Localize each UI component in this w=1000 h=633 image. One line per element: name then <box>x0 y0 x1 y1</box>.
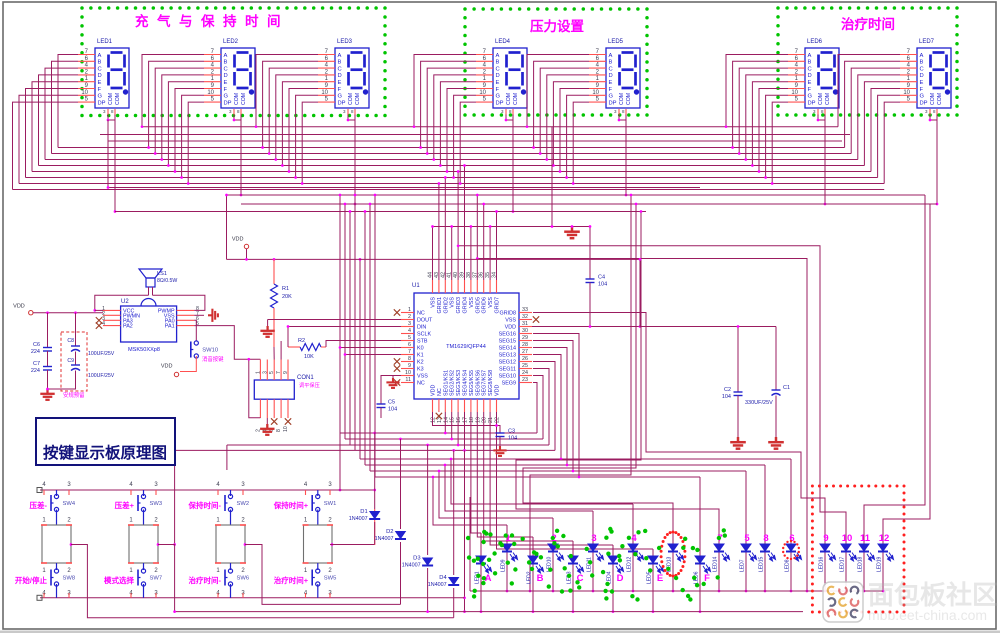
svg-text:LS1: LS1 <box>157 271 167 277</box>
LED LED7 <box>741 544 751 552</box>
svg-text:SEG6/KS6: SEG6/KS6 <box>475 370 481 396</box>
svg-text:1: 1 <box>408 307 411 313</box>
svg-text:3: 3 <box>591 533 596 544</box>
svg-text:C2: C2 <box>724 387 731 393</box>
svg-text:保持时间+: 保持时间+ <box>273 500 309 510</box>
svg-text:2: 2 <box>408 314 411 320</box>
svg-text:SEG11: SEG11 <box>499 367 516 373</box>
svg-text:LED6: LED6 <box>807 39 823 45</box>
wire: display COM connections <box>108 115 115 121</box>
svg-text:VSS: VSS <box>469 297 475 308</box>
wire: display fan at x=221 <box>142 55 204 127</box>
svg-text:29: 29 <box>522 335 528 341</box>
svg-text:DP: DP <box>338 100 346 106</box>
svg-text:224: 224 <box>31 368 40 374</box>
capacitor C6 <box>47 313 49 348</box>
svg-text:23: 23 <box>522 377 528 383</box>
svg-text:C8: C8 <box>67 338 74 344</box>
svg-text:20: 20 <box>482 417 488 423</box>
buzzer LS1 <box>139 269 162 287</box>
ground near C4 <box>564 227 580 239</box>
wire: DIN to R2 <box>288 327 401 348</box>
svg-text:DP: DP <box>609 100 617 106</box>
svg-text:SEG1/KS1: SEG1/KS1 <box>443 370 449 396</box>
switch SW10 <box>191 341 199 358</box>
svg-text:LED16: LED16 <box>819 556 825 572</box>
wire: DOUT line <box>268 319 401 321</box>
wire: display fan at x=335 <box>256 55 318 127</box>
wire: COM bus lines <box>115 211 646 213</box>
svg-text:模式选择: 模式选择 <box>104 575 134 585</box>
svg-text:COM: COM <box>825 93 831 105</box>
svg-text:COM: COM <box>930 93 936 105</box>
svg-text:SW4: SW4 <box>63 501 76 507</box>
capacitor C5 <box>377 404 386 408</box>
svg-text:3: 3 <box>262 371 268 374</box>
svg-text:SEG5/KS5: SEG5/KS5 <box>469 370 475 396</box>
wire: PA0 to SW10 <box>194 320 196 340</box>
wire: right side verticals <box>864 195 925 544</box>
svg-text:B: B <box>920 60 924 66</box>
svg-text:E: E <box>98 80 102 86</box>
svg-text:STB: STB <box>417 339 428 345</box>
svg-text:NC: NC <box>437 388 443 396</box>
svg-text:18: 18 <box>469 417 475 423</box>
wire: U1 VSS pin10 to ground and C5 <box>381 376 401 405</box>
wire: R2 right to STB <box>326 341 401 348</box>
wire: LED bottom buses <box>470 590 883 592</box>
switch SW6 <box>230 563 232 570</box>
no-connect marks U1 <box>394 309 400 315</box>
svg-text:B: B <box>537 573 544 584</box>
svg-text:10: 10 <box>405 370 411 376</box>
svg-text:28: 28 <box>522 342 528 348</box>
wire: display fan at x=606 <box>527 55 589 127</box>
svg-text:4: 4 <box>102 321 105 327</box>
svg-text:SEG9: SEG9 <box>502 381 516 387</box>
svg-text:SEG15: SEG15 <box>499 339 516 345</box>
svg-text:LED1: LED1 <box>97 39 113 45</box>
svg-text:COM: COM <box>115 93 121 105</box>
svg-text:E: E <box>920 80 924 86</box>
no-connect marks CON1 <box>271 418 277 424</box>
svg-text:SW2: SW2 <box>237 501 250 507</box>
svg-text:SEG10: SEG10 <box>499 374 516 380</box>
svg-text:LED2: LED2 <box>527 571 533 584</box>
capacitor C7 <box>43 367 52 371</box>
capacitor C3 <box>496 433 505 437</box>
svg-text:C: C <box>609 66 613 72</box>
svg-text:G: G <box>338 94 343 100</box>
svg-text:8: 8 <box>763 533 768 544</box>
svg-text:15: 15 <box>450 417 456 423</box>
svg-text:COM: COM <box>348 93 354 105</box>
wire: trunk above CON1 <box>280 341 282 360</box>
svg-text:开始/停止: 开始/停止 <box>15 575 48 585</box>
svg-text:A: A <box>496 53 500 59</box>
svg-text:COM: COM <box>818 93 824 105</box>
svg-text:压差-: 压差- <box>30 500 48 510</box>
svg-text:104: 104 <box>722 394 731 400</box>
svg-text:D1: D1 <box>360 509 367 515</box>
ground mid <box>267 320 269 327</box>
svg-text:LED2: LED2 <box>223 39 239 45</box>
diode D4 <box>453 450 455 575</box>
svg-text:U2: U2 <box>121 299 129 305</box>
svg-text:10K: 10K <box>304 354 314 360</box>
wire: PA1 to CON1 <box>194 326 260 360</box>
svg-text:11: 11 <box>860 533 871 544</box>
svg-text:C: C <box>808 66 812 72</box>
svg-text:NC: NC <box>417 381 425 387</box>
wire: SEG13-SEG16 right stubs <box>533 355 561 460</box>
svg-text:DP: DP <box>808 100 816 106</box>
LED LED18 <box>859 544 869 552</box>
svg-text:C6: C6 <box>33 342 40 348</box>
svg-text:COM: COM <box>626 93 632 105</box>
svg-text:C7: C7 <box>33 361 40 367</box>
wire: U1 VDD bottom pins to C3 <box>433 412 501 433</box>
LED LED8 <box>786 544 796 552</box>
svg-text:PA1: PA1 <box>165 324 175 330</box>
svg-text:SW6: SW6 <box>237 576 250 582</box>
svg-text:SEG3/KS3: SEG3/KS3 <box>456 370 462 396</box>
svg-text:A: A <box>338 53 342 59</box>
svg-text:COM: COM <box>241 93 247 105</box>
svg-text:DP: DP <box>98 100 106 106</box>
svg-text:F: F <box>920 87 924 93</box>
svg-text:D: D <box>338 73 342 79</box>
svg-text:E: E <box>338 80 342 86</box>
svg-text:LED17: LED17 <box>840 556 846 572</box>
svg-text:mbb.eet-china.com: mbb.eet-china.com <box>868 607 987 623</box>
svg-text:LED3: LED3 <box>337 39 353 45</box>
IC U2 MSK50XXp8 <box>121 306 177 342</box>
svg-text:104: 104 <box>508 436 517 442</box>
svg-text:G: G <box>224 94 229 100</box>
svg-text:9: 9 <box>283 371 289 374</box>
dotted group box: charge/hold time <box>80 6 84 10</box>
wire: switch outputs to diodes <box>330 544 375 546</box>
svg-text:COM: COM <box>506 93 512 105</box>
svg-text:C: C <box>496 66 500 72</box>
svg-text:A: A <box>224 53 228 59</box>
svg-text:治疗时间+: 治疗时间+ <box>274 575 309 585</box>
svg-text:9: 9 <box>823 533 828 544</box>
red dotted rectangle around LED16-19 <box>811 485 814 488</box>
svg-text:C: C <box>98 66 102 72</box>
svg-text:13: 13 <box>437 417 443 423</box>
dotted group box: treatment time <box>776 6 780 10</box>
watermark logo 面包板社区 <box>823 582 863 622</box>
no-connect marks U2 <box>96 317 102 323</box>
connector CON1 <box>254 380 294 399</box>
capacitor C2 <box>737 327 739 393</box>
svg-text:R2: R2 <box>298 338 305 344</box>
svg-text:E: E <box>609 80 613 86</box>
svg-text:D: D <box>609 73 613 79</box>
wire: upper bus lines <box>100 134 850 136</box>
svg-text:DP: DP <box>496 100 504 106</box>
svg-text:安规预留: 安规预留 <box>63 391 85 399</box>
svg-text:330UF/25V: 330UF/25V <box>745 400 773 406</box>
LED LED6 <box>695 556 705 564</box>
ground below CON1 <box>266 418 268 424</box>
LED LED15 <box>760 544 770 552</box>
svg-text:C: C <box>338 66 342 72</box>
svg-text:VSS: VSS <box>417 374 428 380</box>
svg-text:F: F <box>808 87 812 93</box>
svg-text:LED14: LED14 <box>713 556 719 572</box>
svg-text:F: F <box>224 87 228 93</box>
svg-text:SW1: SW1 <box>324 501 337 507</box>
LED LED2 <box>528 556 538 564</box>
svg-text:E: E <box>808 80 812 86</box>
LED LED10 <box>548 544 558 552</box>
svg-text:LED4: LED4 <box>495 39 511 45</box>
power VDD mid <box>244 244 248 248</box>
svg-text:D: D <box>617 573 624 584</box>
svg-text:TM1629/QFP44: TM1629/QFP44 <box>446 344 486 350</box>
wire: CON1 pin1 pin2 loop <box>249 359 261 418</box>
svg-text:D: D <box>224 73 228 79</box>
svg-text:A: A <box>609 53 613 59</box>
svg-text:104: 104 <box>598 282 607 288</box>
dotted group box: pressure setting <box>463 7 467 11</box>
svg-text:VDD: VDD <box>232 237 244 243</box>
capacitor C1 <box>775 327 777 391</box>
svg-text:LED19: LED19 <box>877 556 883 572</box>
svg-text:DP: DP <box>920 100 928 106</box>
svg-text:24: 24 <box>522 370 528 376</box>
svg-text:F: F <box>609 87 613 93</box>
svg-text:U1: U1 <box>412 283 420 289</box>
svg-text:8Ω/0.5W: 8Ω/0.5W <box>157 278 177 284</box>
svg-text:面包板社区: 面包板社区 <box>868 580 998 610</box>
LED LED11 <box>588 544 598 552</box>
svg-text:LED15: LED15 <box>759 556 765 572</box>
svg-text:14: 14 <box>443 417 449 423</box>
svg-text:6: 6 <box>408 342 411 348</box>
LED LED16 <box>820 544 830 552</box>
svg-text:SEG8/KS8: SEG8/KS8 <box>488 370 494 396</box>
wire: long seg lines to right LEDs <box>360 458 791 460</box>
svg-text:1N4007: 1N4007 <box>402 563 421 569</box>
capacitor C4 <box>589 227 591 280</box>
svg-text:B: B <box>808 60 812 66</box>
svg-text:33: 33 <box>522 307 528 313</box>
red dotted ellipse around LED13 <box>672 575 675 578</box>
svg-text:16: 16 <box>456 417 462 423</box>
svg-text:COM: COM <box>513 93 519 105</box>
wire: U1 VDD pin31 to C4 <box>532 326 640 328</box>
svg-text:31: 31 <box>522 321 528 327</box>
svg-text:DP: DP <box>224 100 232 106</box>
wire: VDD to U2 <box>29 311 33 315</box>
svg-text:10: 10 <box>842 533 853 544</box>
ground near U1 pin 10 <box>392 376 394 379</box>
svg-text:G: G <box>609 94 614 100</box>
wire: LS1 connections <box>148 287 150 295</box>
svg-text:C: C <box>920 66 924 72</box>
svg-text:C1: C1 <box>783 385 790 391</box>
svg-text:SEG16: SEG16 <box>499 332 516 338</box>
ground below C7 <box>40 389 54 400</box>
wire: segment bus lines <box>142 126 838 128</box>
wire: display fan at x=805 <box>726 55 788 127</box>
svg-text:LED12: LED12 <box>627 556 633 572</box>
svg-text:D4: D4 <box>439 575 447 581</box>
svg-text:压力设置: 压力设置 <box>530 18 584 34</box>
svg-text:4: 4 <box>408 328 411 334</box>
svg-text:MSK50XXp8: MSK50XXp8 <box>128 347 160 353</box>
svg-text:COM: COM <box>234 93 240 105</box>
svg-text:K1: K1 <box>417 353 424 359</box>
wire: GRID verticals to U1 <box>432 227 434 281</box>
svg-text:25: 25 <box>522 363 528 369</box>
LED LED5 <box>648 556 658 564</box>
svg-text:SEG14: SEG14 <box>499 346 516 352</box>
diode D3 <box>427 445 429 555</box>
svg-text:100UF/25V: 100UF/25V <box>88 351 115 357</box>
svg-text:SW3: SW3 <box>150 501 163 507</box>
wire: display fan at x=493 <box>414 55 476 127</box>
svg-text:G: G <box>98 94 103 100</box>
svg-text:E: E <box>496 80 500 86</box>
svg-text:消音按键: 消音按键 <box>202 355 224 363</box>
svg-text:LED5: LED5 <box>608 39 624 45</box>
svg-text:12: 12 <box>879 533 890 544</box>
svg-text:GRID4: GRID4 <box>463 297 469 313</box>
svg-text:GRID2: GRID2 <box>443 297 449 313</box>
svg-text:8: 8 <box>408 356 411 362</box>
svg-text:7: 7 <box>276 371 282 374</box>
svg-text:12: 12 <box>431 417 437 423</box>
LED LED12 <box>628 544 638 552</box>
switch SW8 <box>56 563 58 570</box>
svg-text:DOUT: DOUT <box>417 318 433 324</box>
svg-text:104: 104 <box>388 407 397 413</box>
LED LED9 <box>502 544 512 552</box>
svg-text:C4: C4 <box>598 275 605 281</box>
svg-text:VSS: VSS <box>505 318 516 324</box>
svg-text:B: B <box>496 60 500 66</box>
svg-text:SW10: SW10 <box>202 348 218 354</box>
svg-text:D: D <box>496 73 500 79</box>
svg-text:B: B <box>98 60 102 66</box>
svg-text:22: 22 <box>495 417 501 423</box>
svg-text:G: G <box>496 94 501 100</box>
wire: VDD rail to C1 C2 <box>640 259 776 326</box>
svg-text:VDD: VDD <box>161 364 173 370</box>
svg-text:COM: COM <box>108 93 114 105</box>
op IC U1 TM1629 QFP44 <box>414 293 519 399</box>
switch SW7 <box>143 563 145 570</box>
svg-text:LED7: LED7 <box>919 39 935 45</box>
svg-text:E: E <box>224 80 228 86</box>
svg-text:VSS: VSS <box>450 297 456 308</box>
red dashed box C8 C9 <box>61 332 87 391</box>
wire: display fan LED7 <box>838 55 900 127</box>
svg-text:K0: K0 <box>417 346 424 352</box>
svg-text:E: E <box>657 573 663 584</box>
wire: switch row1 line <box>40 489 375 491</box>
svg-text:治疗时间: 治疗时间 <box>841 16 895 32</box>
svg-text:SW8: SW8 <box>63 576 76 582</box>
svg-text:D3: D3 <box>413 556 420 562</box>
wire: dotted box LED feeds <box>458 246 846 544</box>
wire: VSS line with ground <box>433 226 591 228</box>
svg-text:11: 11 <box>405 377 411 383</box>
resistor R2 <box>300 344 321 351</box>
svg-text:SEG7/KS7: SEG7/KS7 <box>482 370 488 396</box>
LED LED13 <box>668 544 678 552</box>
svg-text:G: G <box>920 94 925 100</box>
svg-text:1: 1 <box>255 371 261 374</box>
svg-text:32: 32 <box>522 314 528 320</box>
svg-text:224: 224 <box>31 349 40 355</box>
svg-text:COM: COM <box>619 93 625 105</box>
svg-text:D: D <box>920 73 924 79</box>
svg-text:5: 5 <box>269 371 275 374</box>
svg-text:C: C <box>224 66 228 72</box>
green indicator dots scatter <box>551 536 555 540</box>
LED area wires <box>506 525 508 591</box>
wire: left trunk verticals <box>339 195 341 433</box>
svg-text:NC: NC <box>417 311 425 317</box>
svg-text:19: 19 <box>475 417 481 423</box>
svg-text:COM: COM <box>355 93 361 105</box>
svg-text:21: 21 <box>488 417 494 423</box>
wire: GRID8 net <box>533 313 825 545</box>
svg-text:B: B <box>338 60 342 66</box>
svg-text:F: F <box>496 87 500 93</box>
svg-text:1N4007: 1N4007 <box>349 516 368 522</box>
svg-text:7: 7 <box>408 349 411 355</box>
wire: key line left drops <box>226 445 228 470</box>
svg-text:LED18: LED18 <box>858 556 864 572</box>
wire: SW10 to VDD <box>180 356 196 372</box>
svg-text:GRID3: GRID3 <box>456 297 462 313</box>
LED LED3 <box>568 556 578 564</box>
svg-text:C5: C5 <box>388 400 395 406</box>
wire: bus to upper LED cascade <box>530 195 631 591</box>
svg-text:LED11: LED11 <box>587 557 593 572</box>
svg-text:R1: R1 <box>282 286 289 292</box>
svg-text:5: 5 <box>408 335 411 341</box>
svg-text:CON1: CON1 <box>297 375 314 381</box>
svg-text:LED8: LED8 <box>785 559 791 572</box>
svg-text:5: 5 <box>744 533 750 544</box>
svg-text:1N4007: 1N4007 <box>375 536 394 542</box>
capacitor C8 <box>75 313 77 346</box>
svg-text:SEG2/KS2: SEG2/KS2 <box>450 370 456 396</box>
svg-text:DIN: DIN <box>417 325 426 331</box>
diode D2 <box>400 439 402 529</box>
svg-text:20K: 20K <box>282 294 292 300</box>
svg-text:按键显示板原理图: 按键显示板原理图 <box>43 443 167 462</box>
svg-text:SEG13: SEG13 <box>499 353 516 359</box>
wire: upper LED feeds <box>433 477 507 525</box>
svg-text:VDD: VDD <box>495 385 501 396</box>
red dotted small ellipse around LED8 <box>790 558 792 560</box>
svg-text:17: 17 <box>463 417 469 423</box>
svg-text:G: G <box>808 94 813 100</box>
svg-text:VSS: VSS <box>488 297 494 308</box>
svg-text:SW7: SW7 <box>150 576 163 582</box>
svg-text:B: B <box>609 60 613 66</box>
svg-text:K2: K2 <box>417 360 424 366</box>
